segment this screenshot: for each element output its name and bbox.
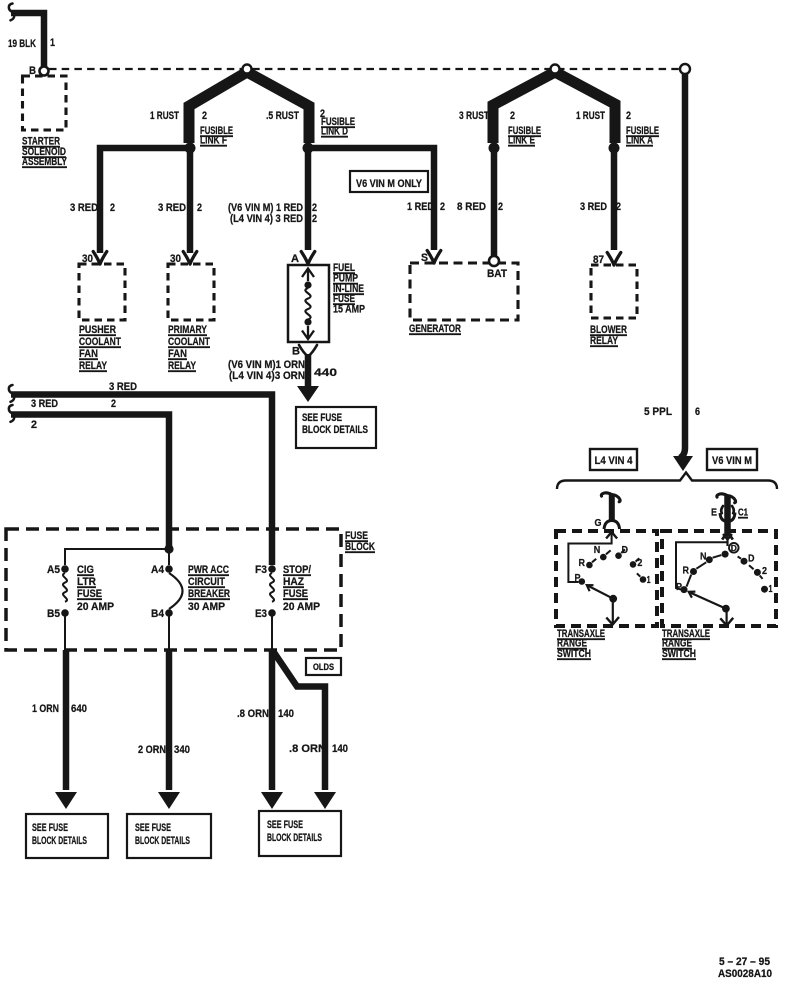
svg-text:BAT: BAT xyxy=(487,268,507,280)
svg-text:2: 2 xyxy=(202,110,207,122)
svg-text:BLOCK DETAILS: BLOCK DETAILS xyxy=(267,832,322,844)
svg-text:FAN: FAN xyxy=(168,348,187,360)
svg-text:LINK E: LINK E xyxy=(508,135,535,147)
svg-text:1: 1 xyxy=(647,575,651,586)
svg-text:SWITCH: SWITCH xyxy=(557,648,591,660)
svg-text:GENERATOR: GENERATOR xyxy=(409,323,461,335)
svg-text:BLOCK: BLOCK xyxy=(345,541,375,553)
svg-text:RELAY: RELAY xyxy=(168,360,197,372)
svg-text:1 RUST: 1 RUST xyxy=(576,110,605,122)
svg-text:D: D xyxy=(748,554,755,565)
svg-text:2: 2 xyxy=(510,110,515,122)
svg-text:3 RUST: 3 RUST xyxy=(459,110,489,122)
svg-text:2: 2 xyxy=(616,201,621,213)
svg-text:1 RUST: 1 RUST xyxy=(150,110,179,122)
svg-text:2: 2 xyxy=(637,558,642,569)
svg-text:F3: F3 xyxy=(255,564,267,576)
svg-text:19 BLK: 19 BLK xyxy=(8,38,36,50)
svg-text:3 RED: 3 RED xyxy=(158,202,186,214)
svg-text:SEE FUSE: SEE FUSE xyxy=(302,412,342,424)
svg-text:SEE FUSE: SEE FUSE xyxy=(135,822,171,834)
svg-text:FUSE: FUSE xyxy=(77,588,102,600)
svg-text:15 AMP: 15 AMP xyxy=(333,304,365,316)
svg-text:340: 340 xyxy=(174,744,190,756)
svg-text:B4: B4 xyxy=(151,608,165,620)
svg-text:L4 VIN 4: L4 VIN 4 xyxy=(595,455,634,467)
svg-text:2 ORN: 2 ORN xyxy=(138,744,166,756)
svg-text:B: B xyxy=(29,65,36,77)
svg-text:HAZ: HAZ xyxy=(283,576,304,588)
svg-text:BLOCK DETAILS: BLOCK DETAILS xyxy=(302,424,368,436)
svg-text:2: 2 xyxy=(312,213,317,225)
svg-text:P: P xyxy=(575,573,581,584)
svg-text:2: 2 xyxy=(111,398,116,410)
svg-text:2: 2 xyxy=(31,419,37,431)
svg-text:6: 6 xyxy=(695,406,700,418)
svg-text:5 – 27 – 95: 5 – 27 – 95 xyxy=(719,956,770,968)
svg-text:S: S xyxy=(421,252,428,264)
svg-text:PRIMARY: PRIMARY xyxy=(168,324,208,336)
svg-text:SWITCH: SWITCH xyxy=(662,648,696,660)
svg-text:ASSEMBLY: ASSEMBLY xyxy=(22,156,67,168)
svg-text:N: N xyxy=(594,545,601,556)
svg-text:CIG: CIG xyxy=(77,564,94,576)
svg-text:3 RED: 3 RED xyxy=(31,398,58,410)
svg-text:A5: A5 xyxy=(47,564,60,576)
svg-text:R: R xyxy=(683,566,690,577)
svg-text:E3: E3 xyxy=(255,608,267,620)
svg-text:V6 VIN M ONLY: V6 VIN M ONLY xyxy=(356,178,423,190)
svg-text:(L4 VIN 4)3 ORN: (L4 VIN 4)3 ORN xyxy=(229,370,305,382)
svg-text:5 PPL: 5 PPL xyxy=(644,406,672,418)
svg-text:SEE FUSE: SEE FUSE xyxy=(32,822,68,834)
svg-text:BLOCK DETAILS: BLOCK DETAILS xyxy=(32,835,87,847)
svg-text:PUSHER: PUSHER xyxy=(79,324,116,336)
svg-text:CIRCUIT: CIRCUIT xyxy=(188,576,225,588)
svg-text:STOP/: STOP/ xyxy=(283,564,311,576)
svg-text:3 RED: 3 RED xyxy=(109,381,137,393)
svg-text:RELAY: RELAY xyxy=(590,335,619,347)
svg-text:FUSE: FUSE xyxy=(283,588,308,600)
svg-text:20 AMP: 20 AMP xyxy=(77,601,114,613)
svg-text:20 AMP: 20 AMP xyxy=(283,601,320,613)
svg-text:1: 1 xyxy=(50,37,55,49)
svg-text:LINK F: LINK F xyxy=(200,135,227,147)
svg-text:LINK D: LINK D xyxy=(321,126,348,138)
svg-text:1 ORN: 1 ORN xyxy=(32,703,59,715)
svg-text:30: 30 xyxy=(82,253,93,265)
svg-text:B5: B5 xyxy=(47,608,60,620)
svg-text:D: D xyxy=(622,545,629,556)
svg-text:.8 ORN: .8 ORN xyxy=(289,743,326,755)
svg-text:D: D xyxy=(731,543,737,553)
svg-text:2: 2 xyxy=(498,201,503,213)
svg-text:140: 140 xyxy=(332,743,348,755)
svg-text:8 RED: 8 RED xyxy=(457,201,486,213)
svg-text:COOLANT: COOLANT xyxy=(168,336,210,348)
svg-text:(L4 VIN 4) 3 RED: (L4 VIN 4) 3 RED xyxy=(230,213,303,225)
svg-text:LINK A: LINK A xyxy=(626,135,653,147)
svg-text:2: 2 xyxy=(762,566,767,577)
svg-text:V6 VIN M: V6 VIN M xyxy=(712,455,752,467)
svg-text:1 RED: 1 RED xyxy=(407,201,434,213)
svg-text:2: 2 xyxy=(110,202,115,214)
svg-text:140: 140 xyxy=(278,708,294,720)
svg-text:.8 ORN: .8 ORN xyxy=(237,708,269,720)
svg-text:P: P xyxy=(676,582,682,593)
svg-text:PWR ACC: PWR ACC xyxy=(188,564,229,576)
svg-text:COOLANT: COOLANT xyxy=(79,336,121,348)
svg-text:A: A xyxy=(291,253,299,265)
svg-text:87: 87 xyxy=(593,254,604,266)
svg-text:C1: C1 xyxy=(738,508,748,519)
svg-text:2: 2 xyxy=(197,202,202,214)
svg-text:SEE FUSE: SEE FUSE xyxy=(267,819,303,831)
svg-text:RELAY: RELAY xyxy=(79,360,108,372)
svg-text:BREAKER: BREAKER xyxy=(188,588,230,600)
svg-text:AS0028A10: AS0028A10 xyxy=(718,968,772,980)
svg-text:G: G xyxy=(595,518,602,529)
svg-text:A4: A4 xyxy=(151,564,165,576)
svg-text:440: 440 xyxy=(314,367,337,379)
svg-text:E: E xyxy=(711,508,717,519)
svg-text:OLDS: OLDS xyxy=(313,662,334,673)
svg-text:3 RED: 3 RED xyxy=(70,202,98,214)
svg-text:.5 RUST: .5 RUST xyxy=(266,110,299,122)
svg-text:R: R xyxy=(579,558,586,569)
svg-text:3 RED: 3 RED xyxy=(580,201,607,213)
svg-text:LTR: LTR xyxy=(77,576,96,588)
svg-text:640: 640 xyxy=(71,703,87,715)
svg-text:N: N xyxy=(700,552,707,563)
svg-text:30: 30 xyxy=(170,253,181,265)
svg-text:BLOCK DETAILS: BLOCK DETAILS xyxy=(135,835,190,847)
svg-text:2: 2 xyxy=(440,201,445,213)
svg-text:30 AMP: 30 AMP xyxy=(188,601,225,613)
svg-text:B: B xyxy=(292,346,300,358)
svg-text:1: 1 xyxy=(769,584,773,595)
svg-text:FAN: FAN xyxy=(79,348,98,360)
svg-text:2: 2 xyxy=(626,110,631,122)
